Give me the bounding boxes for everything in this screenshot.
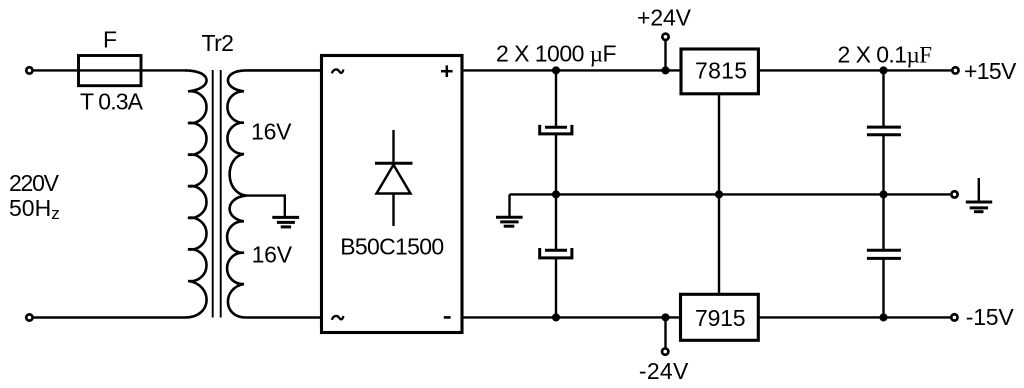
ground filter <box>496 217 523 226</box>
transformer core <box>212 70 214 318</box>
regulator 7815 <box>681 49 758 94</box>
capacitor C4 top lead <box>882 194 884 250</box>
ground output symbol <box>978 178 980 201</box>
terminal line input bottom <box>26 314 32 320</box>
wire +24V stub <box>664 40 666 70</box>
node bridge- / C2 <box>552 313 560 321</box>
capacitor C2 bottom lead <box>555 258 557 318</box>
terminal line input top <box>26 67 32 73</box>
capacitor C3 plates <box>867 126 901 129</box>
regulator 7915 <box>681 294 759 340</box>
wire bridge - output to 7915 <box>462 316 681 318</box>
node +15V / C3 <box>879 66 887 74</box>
svg-text:Tr2: Tr2 <box>201 30 234 56</box>
svg-text:-24V: -24V <box>639 358 689 384</box>
node -15V / C4 <box>879 313 887 321</box>
capacitor C1 plate <box>545 126 567 129</box>
wire regulator ground pins <box>718 94 720 294</box>
transformer Tr2 primary winding <box>185 70 207 317</box>
svg-text:220V: 220V <box>9 170 60 196</box>
ground center tap <box>272 217 299 227</box>
svg-text:T 0.3A: T 0.3A <box>80 88 144 114</box>
node -24V junction <box>661 313 669 321</box>
wire bridge + output to 7815 <box>462 69 681 71</box>
capacitor C3 bottom lead <box>882 135 884 195</box>
terminal -15V <box>951 314 957 320</box>
capacitor C2 plate <box>545 249 567 252</box>
diode triangle <box>377 165 411 194</box>
node +24V junction <box>661 66 669 74</box>
bridge symbol ~ bottom-left <box>332 316 344 320</box>
diode anode lead <box>392 194 394 227</box>
wire -24V stub <box>664 317 666 348</box>
svg-text:F: F <box>103 26 117 52</box>
node C3-C4 midpoint <box>879 190 887 198</box>
bridge symbol - bottom-right <box>444 316 451 319</box>
terminal +24V <box>662 34 668 40</box>
svg-text:+24V: +24V <box>637 4 692 30</box>
node C1-C2 midpoint <box>552 190 560 198</box>
node regulator ground <box>715 190 723 198</box>
wire input top to fuse and transformer <box>33 69 186 71</box>
wire 7815 output to +15V <box>758 69 951 71</box>
diode cathode bar <box>375 162 413 165</box>
terminal ground output <box>951 191 957 197</box>
terminal +15V <box>952 67 958 73</box>
middle ground rail <box>510 193 951 195</box>
svg-text:+15V: +15V <box>964 58 1017 84</box>
capacitor C3 top lead <box>882 70 884 127</box>
capacitor C2 top lead <box>555 194 557 250</box>
transformer secondary winding top 16V <box>227 70 321 195</box>
svg-text:7915: 7915 <box>695 305 746 331</box>
diode symbol cathode lead <box>392 130 394 162</box>
svg-text:B50C1500: B50C1500 <box>340 233 444 259</box>
svg-text:16V: 16V <box>251 118 292 144</box>
capacitor C4 bottom lead <box>882 258 884 317</box>
transformer secondary winding bottom 16V <box>227 196 321 318</box>
svg-text:7815: 7815 <box>695 57 747 83</box>
bridge symbol + top-right <box>441 65 453 77</box>
svg-text:2 X 0.1µF: 2 X 0.1µF <box>838 42 933 68</box>
capacitor C4 plates <box>867 249 901 252</box>
svg-text:16V: 16V <box>252 242 293 268</box>
fuse F <box>79 56 142 86</box>
capacitor C2 cup <box>540 248 572 258</box>
junction dots <box>552 66 888 321</box>
bridge symbol ~ top-left <box>332 69 344 73</box>
node bridge+ / C1 <box>552 66 560 74</box>
capacitor C1 top lead <box>555 70 557 127</box>
capacitor C1 bottom lead <box>555 134 557 195</box>
ground stub filter <box>508 194 510 216</box>
wire 7915 output to -15V <box>758 316 950 318</box>
terminal -24V <box>662 348 668 354</box>
bridge rectifier B50C1500 box <box>322 56 463 333</box>
wire center tap <box>240 196 285 216</box>
svg-text:2 X 1000 µF: 2 X 1000 µF <box>496 40 617 66</box>
capacitor C1 cup <box>540 125 572 134</box>
svg-text:-15V: -15V <box>966 304 1015 330</box>
wire input bottom to transformer <box>33 316 186 318</box>
